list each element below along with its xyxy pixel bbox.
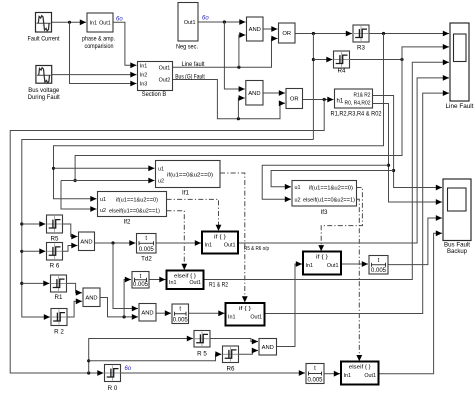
svg-text:elseif { }: elseif { } (174, 274, 196, 280)
svg-text:AND: AND (262, 345, 274, 351)
svg-text:If3: If3 (321, 209, 328, 216)
svg-text:In1: In1 (306, 263, 314, 269)
svg-text:u2: u2 (295, 197, 301, 203)
svg-text:u2: u2 (100, 208, 106, 214)
svg-text:0.005: 0.005 (173, 317, 189, 323)
svg-text:Td2: Td2 (141, 256, 152, 263)
svg-text:if { }: if { } (214, 235, 226, 241)
svg-text:6o: 6o (116, 16, 123, 22)
svg-text:AND: AND (80, 239, 92, 245)
svg-text:0.005: 0.005 (371, 268, 387, 274)
svg-text:Out1: Out1 (364, 373, 376, 379)
svg-text:R1 & R2: R1 & R2 (209, 282, 229, 288)
svg-text:In1: In1 (344, 373, 352, 379)
svg-text:OR: OR (282, 31, 291, 37)
svg-text:elseif(u1==0&u2==1): elseif(u1==0&u2==1) (109, 209, 160, 215)
svg-text:u1: u1 (158, 166, 164, 172)
svg-text:6o: 6o (125, 366, 132, 372)
svg-text:If2: If2 (124, 218, 131, 225)
svg-text:In1: In1 (140, 64, 148, 70)
svg-text:Out1: Out1 (184, 20, 196, 26)
svg-text:R 6: R 6 (50, 263, 60, 270)
svg-text:Out1: Out1 (250, 314, 262, 320)
svg-text:if(u1==1&u2==0): if(u1==1&u2==0) (309, 185, 353, 191)
svg-text:AND: AND (248, 91, 260, 97)
svg-text:OR: OR (290, 97, 299, 103)
svg-text:R 5: R 5 (197, 351, 207, 358)
svg-text:Out1: Out1 (224, 243, 236, 249)
svg-text:R1& R2: R1& R2 (354, 93, 371, 99)
svg-text:u1: u1 (100, 197, 106, 203)
svg-text:Line fault: Line fault (182, 61, 205, 68)
svg-text:AND: AND (249, 27, 261, 33)
svg-text:R 2: R 2 (54, 329, 64, 336)
svg-text:R 0: R 0 (108, 385, 118, 392)
svg-text:R5: R5 (51, 236, 59, 243)
svg-text:If1: If1 (182, 189, 189, 196)
svg-text:elseif(u1==0&u2==1): elseif(u1==0&u2==1) (303, 198, 355, 204)
svg-text:Line Fault: Line Fault (446, 103, 474, 110)
svg-text:elseif { }: elseif { } (349, 365, 371, 371)
svg-text:0.005: 0.005 (139, 247, 155, 253)
svg-text:Out1: Out1 (99, 20, 111, 26)
svg-text:R6: R6 (227, 366, 235, 373)
svg-text:if(u1==1&u2==0): if(u1==1&u2==0) (116, 197, 158, 203)
svg-text:AND: AND (85, 295, 97, 301)
svg-text:Bus (G) Fault: Bus (G) Fault (175, 74, 205, 81)
svg-text:Section B: Section B (142, 91, 167, 98)
svg-text:phase & amp.: phase & amp. (82, 36, 115, 43)
svg-text:if { }: if { } (239, 306, 251, 312)
svg-text:Fault Current: Fault Current (28, 36, 60, 43)
svg-text:0.005: 0.005 (133, 282, 149, 288)
svg-text:Backup: Backup (447, 248, 467, 255)
svg-text:In3: In3 (140, 82, 148, 88)
svg-text:h1: h1 (337, 99, 344, 105)
svg-text:R1,R2,R3,R4 & R02: R1,R2,R3,R4 & R02 (331, 111, 382, 118)
svg-text:if(u1==0&u2==0): if(u1==0&u2==0) (167, 172, 213, 178)
svg-text:R3: R3 (357, 45, 365, 52)
svg-text:Out2: Out2 (159, 78, 171, 84)
svg-text:Bus voltage: Bus voltage (28, 87, 59, 94)
svg-text:u1: u1 (295, 185, 301, 191)
svg-text:Out1: Out1 (159, 66, 171, 72)
svg-text:R5 & R6 o/p: R5 & R6 o/p (244, 246, 269, 252)
svg-text:u2: u2 (158, 178, 164, 184)
svg-text:During Fault: During Fault (28, 94, 60, 101)
svg-text:comparision: comparision (85, 43, 114, 50)
svg-text:R1: R1 (55, 294, 63, 301)
svg-text:if { }: if { } (316, 255, 328, 261)
svg-text:In1: In1 (228, 314, 236, 320)
svg-text:R0, R4,R02: R0, R4,R02 (345, 101, 371, 107)
svg-text:6o: 6o (202, 15, 209, 21)
svg-text:0.005: 0.005 (307, 377, 323, 383)
svg-text:Neg sec.: Neg sec. (176, 43, 198, 50)
svg-text:In1: In1 (90, 20, 98, 26)
svg-text:Out1: Out1 (189, 280, 201, 286)
svg-text:In1: In1 (169, 280, 177, 286)
svg-text:AND: AND (141, 310, 153, 316)
svg-text:Out1: Out1 (327, 263, 339, 269)
svg-text:In2: In2 (140, 73, 148, 79)
svg-text:R4: R4 (338, 68, 346, 75)
svg-text:In1: In1 (205, 243, 213, 249)
